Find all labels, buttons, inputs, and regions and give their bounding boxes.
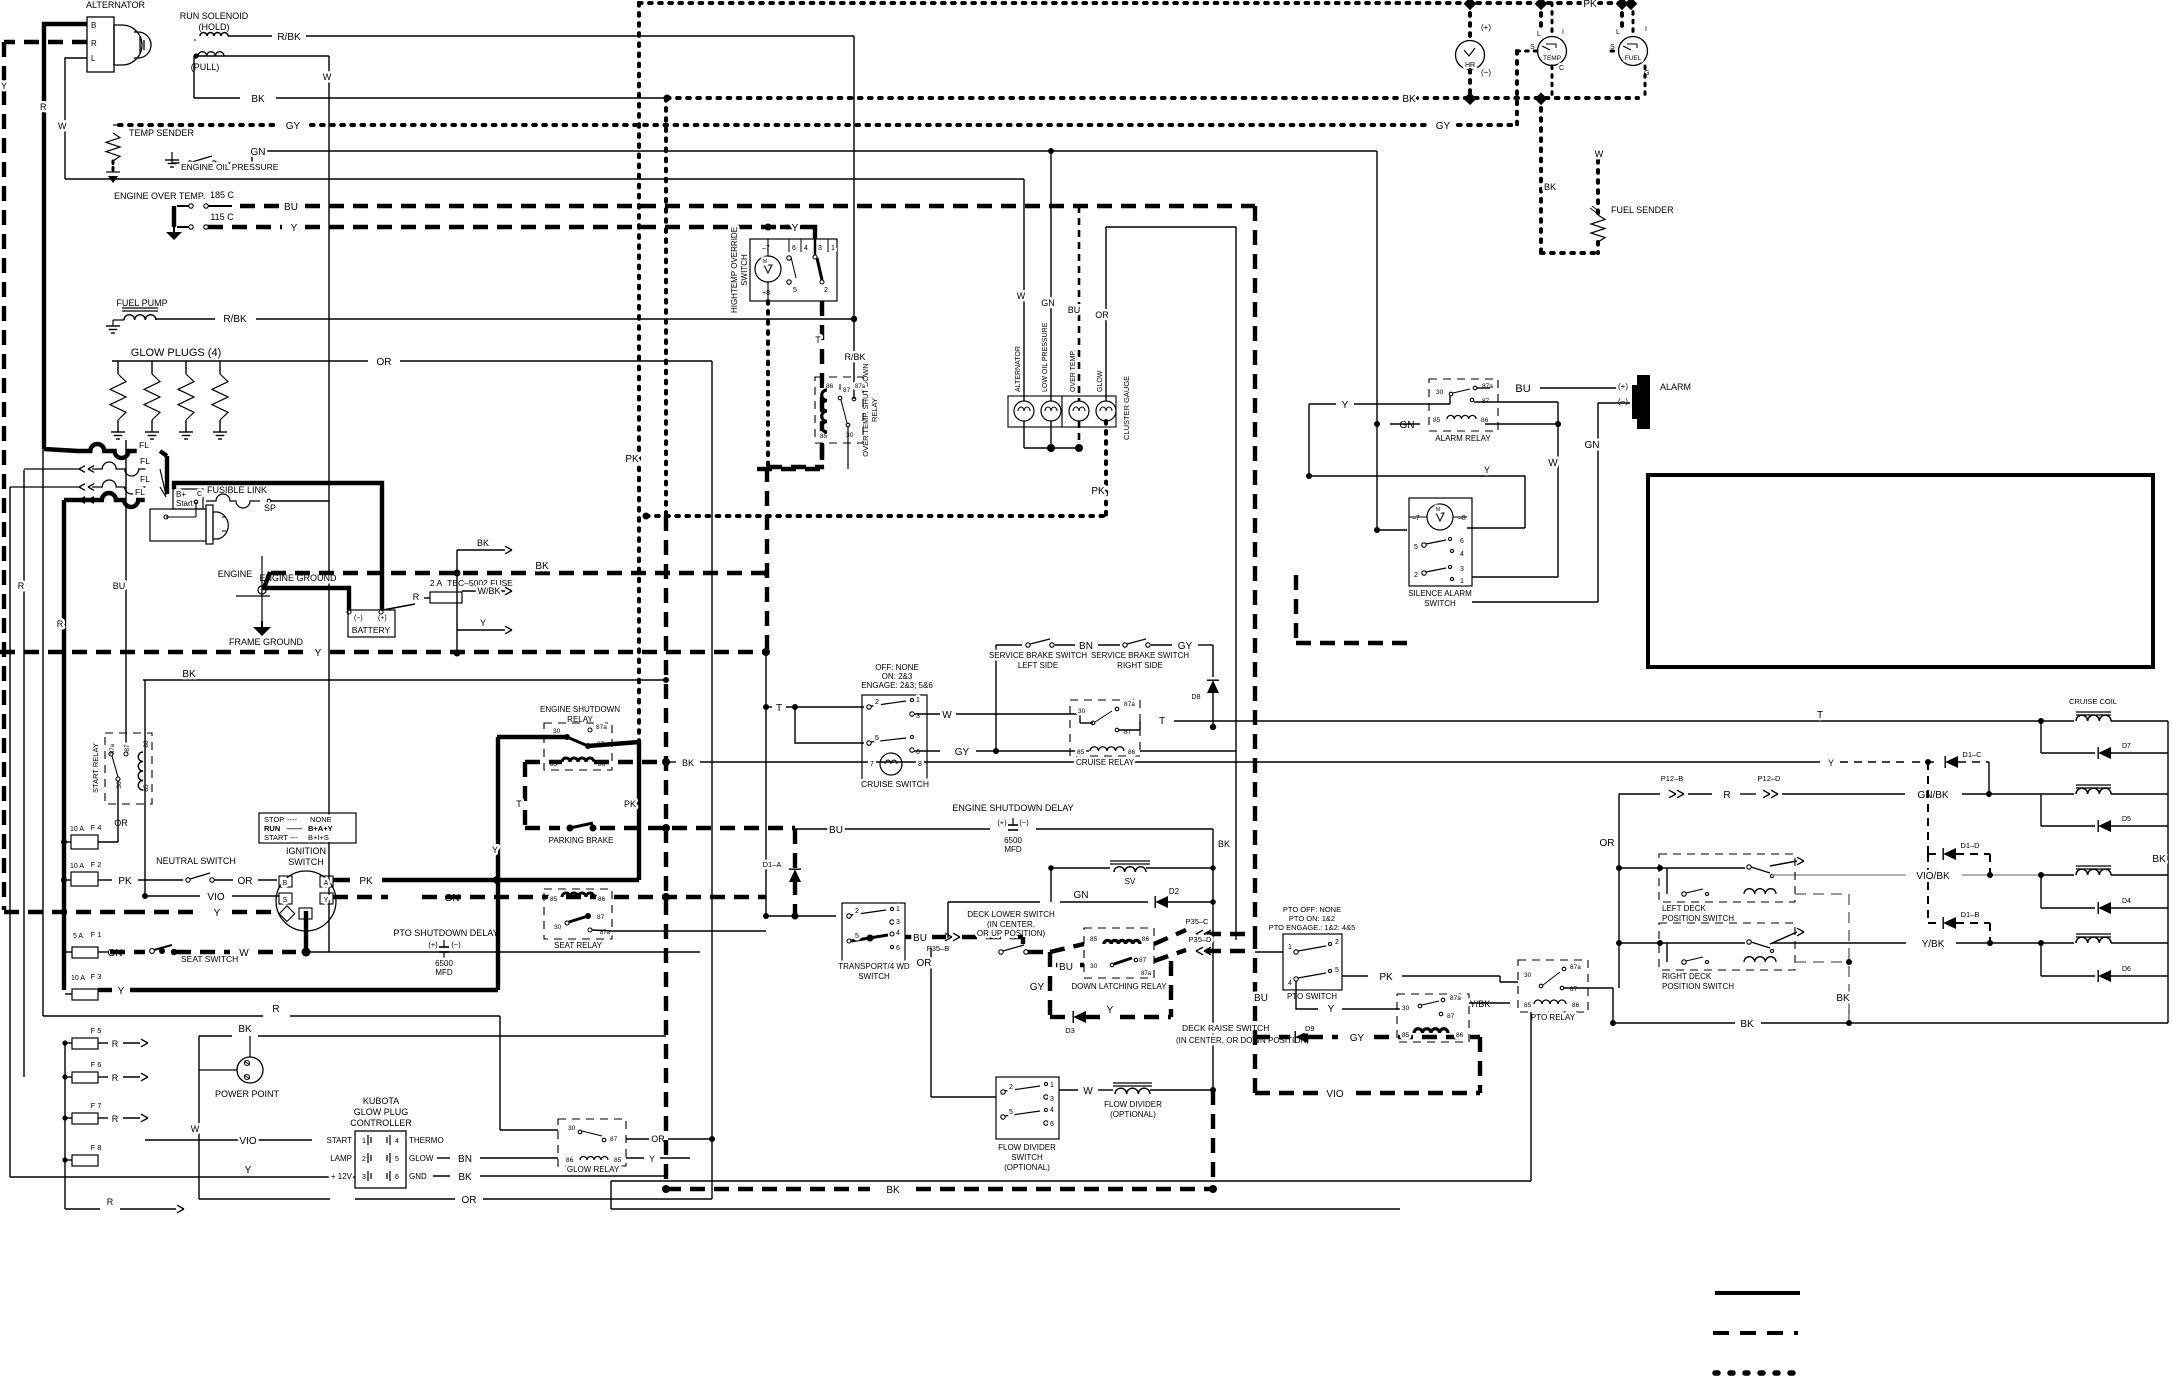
svg-text:6500: 6500 (435, 959, 453, 968)
svg-text:BU: BU (113, 581, 126, 591)
svg-text:(+): (+) (378, 615, 387, 622)
svg-text:TRANSPORT/4 WD: TRANSPORT/4 WD (838, 962, 910, 971)
svg-text:ALARM: ALARM (1660, 382, 1691, 392)
svg-text:10 A: 10 A (70, 826, 84, 833)
svg-text:BU: BU (829, 825, 843, 836)
svg-text:RIGHT DECK: RIGHT DECK (1662, 972, 1712, 981)
svg-text:OR: OR (651, 1134, 665, 1144)
svg-text:86: 86 (1128, 749, 1136, 756)
svg-text:BK: BK (477, 538, 489, 548)
svg-text:4: 4 (896, 930, 900, 937)
svg-text:ALTERNATOR: ALTERNATOR (86, 0, 146, 10)
svg-text:W: W (58, 121, 67, 131)
svg-text:6: 6 (916, 749, 920, 756)
svg-text:85: 85 (614, 1157, 622, 1164)
svg-text:P12–B: P12–B (1661, 774, 1684, 783)
svg-text:+ 12V: + 12V (331, 1172, 353, 1181)
svg-text:STOP: STOP (264, 815, 284, 824)
svg-text:POSITION SWITCH: POSITION SWITCH (1662, 914, 1734, 923)
svg-text:CONTROLLER: CONTROLLER (350, 1118, 412, 1128)
svg-text:PK: PK (1583, 0, 1597, 10)
svg-text:D1–A: D1–A (763, 860, 782, 869)
svg-text:BK: BK (1836, 993, 1850, 1004)
svg-text:D8: D8 (1192, 694, 1201, 701)
svg-text:GN: GN (1585, 440, 1600, 451)
svg-text:GN/BK: GN/BK (1917, 790, 1948, 801)
svg-text:P35–B: P35–B (927, 944, 950, 953)
svg-text:D9: D9 (1305, 1024, 1315, 1033)
svg-text:PK: PK (1379, 972, 1393, 983)
svg-text:Y/BK: Y/BK (1922, 939, 1945, 950)
svg-text:6: 6 (896, 945, 900, 952)
svg-text:–8: –8 (1458, 515, 1466, 522)
svg-text:SWITCH: SWITCH (288, 857, 324, 867)
svg-text:5: 5 (1009, 1109, 1013, 1116)
svg-text:BU: BU (1068, 305, 1081, 315)
svg-text:(−): (−) (451, 940, 461, 949)
svg-text:R: R (91, 39, 97, 48)
svg-text:R: R (272, 1004, 279, 1015)
svg-text:BK: BK (238, 1024, 252, 1035)
svg-text:W/BK: W/BK (477, 586, 500, 596)
svg-text:SEAT SWITCH: SEAT SWITCH (181, 954, 238, 964)
svg-text:Y: Y (118, 986, 125, 997)
svg-text:L: L (91, 54, 96, 63)
svg-text:BK: BK (682, 758, 694, 768)
svg-text:D1–C: D1–C (1962, 750, 1982, 759)
svg-text:85: 85 (1402, 1032, 1410, 1039)
svg-text:2: 2 (362, 1156, 366, 1163)
svg-text:R/BK: R/BK (223, 314, 247, 325)
svg-text:GN: GN (1074, 890, 1089, 901)
svg-text:FUEL: FUEL (1625, 55, 1642, 62)
svg-text:P12–D: P12–D (1758, 774, 1782, 783)
svg-text:(OPTIONAL): (OPTIONAL) (1110, 1110, 1156, 1119)
svg-text:5: 5 (395, 1156, 399, 1163)
svg-text:SP: SP (264, 503, 276, 513)
svg-text:88: 88 (143, 740, 150, 748)
svg-text:(−): (−) (1481, 68, 1491, 77)
svg-text:10 A: 10 A (70, 863, 84, 870)
svg-text:87a: 87a (1482, 383, 1493, 390)
svg-text:D5: D5 (2122, 816, 2131, 823)
svg-text:R: R (112, 1039, 119, 1049)
svg-text:GLOW RELAY: GLOW RELAY (567, 1165, 620, 1174)
svg-text:I: I (1562, 29, 1564, 36)
svg-text:START RELAY: START RELAY (91, 743, 100, 793)
svg-text:F 1: F 1 (91, 930, 102, 939)
svg-text:BU: BU (1059, 962, 1073, 973)
svg-text:4: 4 (1288, 980, 1292, 987)
svg-text:POSITION SWITCH: POSITION SWITCH (1662, 982, 1734, 991)
svg-text:FL: FL (135, 487, 145, 497)
svg-text:PTO ENGAGE.: 1&2: 4&5: PTO ENGAGE.: 1&2: 4&5 (1269, 923, 1356, 932)
svg-text:3: 3 (818, 245, 822, 252)
svg-text:R/BK: R/BK (844, 352, 865, 362)
svg-text:SERVICE BRAKE SWITCH: SERVICE BRAKE SWITCH (1091, 651, 1189, 660)
svg-text:5: 5 (1414, 544, 1418, 551)
svg-text:RUN SOLENOID: RUN SOLENOID (180, 11, 249, 21)
svg-text:(OPTIONAL): (OPTIONAL) (1004, 1163, 1050, 1172)
svg-text:L: L (1537, 31, 1541, 38)
svg-text:RELAY: RELAY (870, 398, 879, 422)
svg-text:OR: OR (114, 818, 128, 828)
svg-text:BN: BN (458, 1154, 472, 1165)
svg-text:ALTERNATOR: ALTERNATOR (1015, 346, 1022, 392)
svg-text:86: 86 (1142, 936, 1150, 943)
svg-text:BK: BK (182, 669, 196, 680)
svg-text:F 2: F 2 (91, 860, 102, 869)
svg-text:(+): (+) (428, 940, 438, 949)
svg-text:FUEL SENDER: FUEL SENDER (1611, 205, 1674, 215)
svg-text:KUBOTA: KUBOTA (363, 1096, 399, 1106)
svg-text:SILENCE ALARM: SILENCE ALARM (1408, 589, 1472, 598)
svg-text:1: 1 (896, 906, 900, 913)
svg-text:RUN: RUN (264, 824, 280, 833)
svg-text:8: 8 (918, 761, 922, 768)
svg-text:F 7: F 7 (91, 1101, 102, 1110)
svg-text:BK: BK (2152, 854, 2166, 865)
svg-text:(+): (+) (1618, 382, 1628, 391)
svg-text:D1–B: D1–B (1961, 910, 1980, 919)
svg-text:BK: BK (458, 1172, 472, 1183)
svg-text:10 A: 10 A (71, 975, 85, 982)
svg-text:–7: –7 (762, 245, 770, 252)
svg-text:(−): (−) (354, 615, 363, 622)
svg-text:1: 1 (362, 1138, 366, 1145)
svg-text:T: T (516, 799, 522, 809)
svg-text:87: 87 (1447, 1013, 1455, 1020)
svg-text:87a: 87a (1141, 971, 1152, 977)
svg-text:Start: Start (176, 499, 194, 508)
svg-text:F 5: F 5 (91, 1026, 102, 1035)
svg-text:D1–D: D1–D (1960, 841, 1980, 850)
svg-text:85: 85 (820, 433, 828, 440)
svg-text:W: W (239, 948, 249, 959)
svg-text:R: R (107, 1197, 114, 1207)
svg-text:3: 3 (1050, 1096, 1054, 1103)
svg-text:GLOW PLUG: GLOW PLUG (354, 1107, 409, 1117)
svg-text:LEFT DECK: LEFT DECK (1662, 904, 1707, 913)
svg-text:87: 87 (1570, 986, 1578, 993)
svg-text:Y: Y (1828, 758, 1834, 768)
svg-text:——: —— (287, 824, 303, 833)
svg-text:SWITCH: SWITCH (858, 972, 890, 981)
svg-text:(IN CENTER,: (IN CENTER, (987, 920, 1035, 929)
svg-text:B+: B+ (176, 490, 186, 499)
svg-text:87a: 87a (1450, 995, 1461, 1002)
svg-text:(PULL): (PULL) (191, 62, 220, 72)
svg-text:W: W (1083, 1086, 1093, 1097)
svg-text:3: 3 (1460, 566, 1464, 573)
svg-text:86: 86 (566, 1157, 574, 1164)
svg-text:1: 1 (1460, 578, 1464, 585)
svg-text:5: 5 (793, 287, 797, 294)
svg-text:IGNITION: IGNITION (286, 846, 326, 856)
svg-text:I: I (1645, 26, 1647, 33)
svg-text:3: 3 (362, 1174, 366, 1181)
svg-text:R: R (18, 581, 25, 591)
svg-text:86: 86 (1456, 1032, 1464, 1039)
svg-text:BK: BK (1740, 1019, 1754, 1030)
svg-text:4: 4 (804, 245, 808, 252)
svg-text:Y: Y (315, 648, 322, 659)
svg-text:SWITCH: SWITCH (1011, 1153, 1043, 1162)
svg-text:Y: Y (792, 223, 799, 234)
svg-text:6: 6 (1050, 1121, 1054, 1128)
svg-text:BU: BU (1515, 383, 1530, 395)
svg-text:4: 4 (1460, 551, 1464, 558)
svg-text:85: 85 (550, 896, 558, 903)
svg-text:87: 87 (843, 387, 851, 394)
svg-text:R: R (112, 1073, 119, 1083)
svg-text:HR: HR (1465, 62, 1475, 69)
svg-text:2: 2 (1009, 1084, 1013, 1091)
svg-text:ENGINE SHUTDOWN DELAY: ENGINE SHUTDOWN DELAY (952, 803, 1073, 813)
svg-text:30: 30 (1078, 708, 1086, 715)
svg-text:L: L (1616, 29, 1620, 36)
svg-text:GY: GY (1030, 982, 1045, 993)
svg-text:30: 30 (1436, 389, 1444, 396)
svg-text:30: 30 (568, 1125, 576, 1132)
svg-text:F 3: F 3 (91, 972, 102, 981)
svg-text:–7: –7 (1412, 515, 1420, 522)
svg-text:2: 2 (1335, 939, 1339, 946)
svg-text:(−): (−) (1019, 818, 1029, 827)
svg-text:86: 86 (1481, 417, 1489, 424)
svg-text:OR UP POSITION): OR UP POSITION) (977, 929, 1046, 938)
svg-text:2: 2 (875, 699, 879, 706)
svg-text:85: 85 (1433, 417, 1441, 424)
svg-text:1: 1 (1050, 1082, 1054, 1089)
svg-text:87a: 87a (1570, 964, 1581, 971)
svg-text:S: S (283, 897, 288, 904)
svg-text:Y/BK: Y/BK (1470, 999, 1491, 1009)
svg-text:ENGINE SHUTDOWN: ENGINE SHUTDOWN (540, 705, 620, 714)
svg-text:TEMP SENDER: TEMP SENDER (129, 128, 194, 138)
svg-text:B+A+Y: B+A+Y (308, 824, 333, 833)
svg-text:W: W (1017, 291, 1026, 301)
svg-text:VIO/BK: VIO/BK (1916, 871, 1950, 882)
svg-text:GN: GN (1400, 420, 1415, 431)
svg-text:30: 30 (1524, 972, 1532, 979)
svg-text:Y: Y (291, 223, 298, 234)
svg-text:3: 3 (896, 919, 900, 926)
svg-text:OR: OR (917, 958, 932, 969)
svg-text:OR: OR (1095, 310, 1109, 320)
svg-text:ON: 2&3: ON: 2&3 (882, 672, 913, 681)
svg-text:R: R (57, 619, 64, 629)
svg-text:W: W (942, 710, 952, 721)
svg-text:SWITCH: SWITCH (740, 254, 749, 286)
svg-text:P35–C: P35–C (1186, 917, 1210, 926)
svg-text:START: START (264, 833, 288, 842)
svg-text:87: 87 (1139, 957, 1147, 964)
svg-text:FLOW DIVIDER: FLOW DIVIDER (1104, 1100, 1162, 1109)
svg-text:30: 30 (554, 924, 562, 931)
svg-text:PTO OFF: NONE: PTO OFF: NONE (1283, 905, 1341, 914)
svg-text:R: R (112, 1114, 119, 1124)
svg-text:5: 5 (875, 735, 879, 742)
svg-text:Y: Y (480, 618, 486, 628)
svg-text:F 4: F 4 (91, 823, 102, 832)
svg-text:2: 2 (824, 287, 828, 294)
svg-text:PARKING BRAKE: PARKING BRAKE (549, 836, 614, 845)
svg-text:87a: 87a (855, 384, 866, 390)
svg-text:D4: D4 (2122, 898, 2131, 905)
svg-text:GN: GN (1041, 298, 1055, 308)
svg-text:CRUISE SWITCH: CRUISE SWITCH (861, 779, 929, 789)
svg-text:DOWN LATCHING RELAY: DOWN LATCHING RELAY (1071, 982, 1167, 991)
svg-text:85: 85 (1090, 936, 1098, 943)
svg-text:FL: FL (139, 440, 149, 450)
svg-text:BK: BK (1402, 94, 1416, 105)
svg-text:BK: BK (1544, 182, 1556, 192)
svg-text:R: R (40, 102, 47, 112)
svg-text:THERMO: THERMO (409, 1136, 444, 1145)
svg-text:1: 1 (916, 697, 920, 704)
svg-text:(+): (+) (1481, 23, 1491, 32)
svg-text:87: 87 (597, 914, 605, 921)
svg-text:B: B (91, 21, 96, 30)
svg-text:OFF: NONE: OFF: NONE (875, 663, 919, 672)
svg-text:1: 1 (831, 245, 835, 252)
svg-text:Y: Y (649, 1154, 655, 1164)
svg-text:30: 30 (553, 728, 561, 735)
svg-text:----: ---- (287, 815, 297, 824)
svg-text:LEFT SIDE: LEFT SIDE (1018, 661, 1058, 670)
svg-text:F 6: F 6 (91, 1060, 102, 1069)
svg-text:LOW OIL PRESSURE: LOW OIL PRESSURE (1042, 322, 1049, 392)
svg-text:VIO: VIO (207, 892, 224, 903)
svg-text:W: W (323, 72, 332, 82)
svg-text:MFD: MFD (1004, 845, 1022, 854)
svg-text:START: START (327, 1136, 353, 1145)
svg-text:BU: BU (284, 202, 298, 213)
svg-text:SV: SV (1125, 877, 1136, 886)
svg-text:HIGHTEMP OVERRIDE: HIGHTEMP OVERRIDE (730, 227, 739, 313)
svg-text:(HOLD): (HOLD) (199, 22, 230, 32)
svg-text:PK: PK (1091, 486, 1105, 497)
svg-text:C: C (197, 491, 202, 498)
svg-text:87: 87 (610, 1136, 618, 1143)
svg-text:M: M (1436, 507, 1440, 513)
svg-text:GN: GN (251, 147, 266, 158)
svg-text:B: B (283, 880, 288, 887)
svg-text:MFD: MFD (435, 968, 453, 977)
svg-text:4: 4 (395, 1138, 399, 1145)
svg-text:FL: FL (140, 456, 150, 466)
svg-text:D2: D2 (1169, 887, 1180, 896)
svg-text:ENGINE: ENGINE (218, 569, 253, 579)
svg-text:PTO RELAY: PTO RELAY (1531, 1013, 1576, 1022)
svg-text:Y: Y (245, 1165, 252, 1176)
svg-text:A: A (324, 880, 329, 887)
svg-text:OR: OR (1600, 838, 1615, 849)
svg-text:FRAME GROUND: FRAME GROUND (229, 637, 304, 647)
svg-text:+8: +8 (762, 290, 770, 297)
svg-text:B+I+S: B+I+S (308, 833, 329, 842)
svg-text:BK: BK (886, 1185, 900, 1196)
svg-text:BU: BU (913, 933, 927, 944)
svg-text:(+): (+) (997, 818, 1007, 827)
svg-text:Y: Y (492, 845, 498, 855)
svg-text:Y: Y (1107, 1005, 1114, 1016)
svg-text:W: W (1548, 458, 1558, 469)
svg-text:86: 86 (1572, 1002, 1580, 1009)
svg-text:D6: D6 (2122, 966, 2131, 973)
svg-text:86: 86 (598, 896, 606, 903)
svg-text:115 C: 115 C (210, 212, 234, 222)
svg-text:6500: 6500 (1004, 836, 1022, 845)
svg-text:PK: PK (359, 876, 373, 887)
svg-text:GY: GY (1436, 121, 1451, 132)
svg-text:5: 5 (1335, 967, 1339, 974)
svg-text:M: M (763, 259, 767, 265)
svg-text:30: 30 (846, 432, 854, 439)
svg-text:T: T (1817, 710, 1823, 721)
svg-text:185 C: 185 C (210, 190, 235, 200)
svg-text:2: 2 (1414, 572, 1418, 579)
svg-text:FLOW DIVIDER: FLOW DIVIDER (998, 1143, 1056, 1152)
svg-text:OVER TEMP.: OVER TEMP. (1070, 350, 1077, 392)
svg-text:6: 6 (1460, 538, 1464, 545)
svg-text:PK: PK (624, 799, 636, 809)
svg-text:1: 1 (1288, 944, 1292, 951)
svg-text:2 A: 2 A (430, 578, 443, 588)
svg-text:Y: Y (324, 897, 329, 904)
svg-text:D7: D7 (2122, 743, 2131, 750)
svg-text:SERVICE BRAKE SWITCH: SERVICE BRAKE SWITCH (989, 651, 1087, 660)
svg-text:NEUTRAL SWITCH: NEUTRAL SWITCH (156, 856, 236, 866)
svg-text:FUEL PUMP: FUEL PUMP (116, 298, 167, 308)
svg-text:R: R (1723, 790, 1730, 801)
svg-text:GY: GY (1350, 1033, 1365, 1044)
svg-text:LAMP: LAMP (330, 1154, 352, 1163)
svg-text:SWITCH: SWITCH (1424, 599, 1456, 608)
svg-text:Y: Y (1, 81, 7, 91)
svg-text:5 A: 5 A (73, 933, 83, 940)
svg-text:2: 2 (855, 908, 859, 915)
svg-text:F 8: F 8 (91, 1143, 102, 1152)
svg-text:R/BK: R/BK (277, 32, 301, 43)
svg-text:87a: 87a (596, 724, 607, 731)
svg-text:30: 30 (1090, 963, 1098, 970)
svg-text:PTO SHUTDOWN DELAY: PTO SHUTDOWN DELAY (393, 928, 498, 938)
svg-text:BATTERY: BATTERY (352, 625, 391, 635)
svg-text:PK: PK (118, 876, 132, 887)
svg-text:BU: BU (1254, 993, 1268, 1004)
svg-text:Y: Y (1484, 465, 1490, 475)
svg-text:POWER POINT: POWER POINT (215, 1089, 280, 1099)
svg-text:85: 85 (1077, 749, 1085, 756)
svg-text:BK: BK (1218, 839, 1230, 849)
svg-text:GND: GND (409, 1172, 427, 1181)
svg-text:86: 86 (826, 383, 834, 390)
svg-text:PK: PK (625, 454, 639, 465)
svg-text:OR: OR (238, 876, 253, 887)
svg-text:R: R (413, 592, 420, 602)
svg-text:87: 87 (124, 744, 131, 752)
svg-text:T: T (1159, 716, 1165, 727)
svg-text:CLUSTER GAUGE: CLUSTER GAUGE (1122, 376, 1131, 440)
svg-text:6: 6 (792, 245, 796, 252)
svg-text:FL: FL (140, 474, 150, 484)
svg-text:D3: D3 (1065, 1026, 1075, 1035)
svg-text:SEAT RELAY: SEAT RELAY (554, 941, 603, 950)
svg-text:GLOW PLUGS (4): GLOW PLUGS (4) (131, 347, 221, 359)
svg-text:BK: BK (535, 561, 549, 572)
